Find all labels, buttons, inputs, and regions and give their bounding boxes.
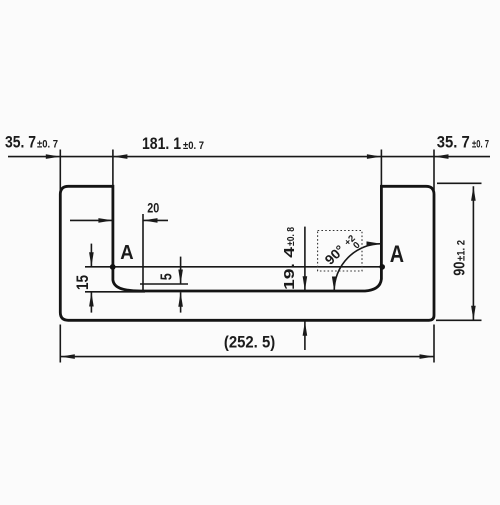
extension line right outer x=434 (433, 150, 435, 191)
svg-text:90: 90 (452, 262, 469, 276)
19.4 dim upper line with down arrow (304, 227, 306, 291)
svg-text:15: 15 (73, 275, 92, 290)
svg-text:±0. 7: ±0. 7 (472, 139, 489, 151)
point A right dot (379, 264, 385, 270)
arrow tip 434 pointing left (434, 154, 449, 159)
bottom dimension line 252.5 (60, 356, 434, 358)
arrow tip 381.4 pointing right (367, 154, 382, 159)
arrow tip 112.9 pointing left (113, 154, 128, 159)
svg-text:±1. 2: ±1. 2 (456, 240, 468, 261)
svg-text:A: A (120, 242, 133, 264)
90 dim top extension line (437, 182, 482, 184)
bottom dim extension line left (59, 325, 61, 363)
5 dim lower arrow (up) (180, 292, 182, 312)
A-level line through both A points (85, 266, 382, 268)
extension line right inner x=381.4 (380, 150, 382, 187)
arrow tip 434 pointing right (420, 354, 435, 359)
svg-text:±0. 7: ±0. 7 (183, 140, 204, 152)
part outline (60, 186, 434, 320)
arc arrow bottom pointing down (332, 277, 337, 292)
svg-text:35. 7: 35. 7 (5, 134, 36, 152)
arrow tip 60.3 pointing right (46, 154, 61, 159)
svg-text:19. 4: 19. 4 (281, 246, 298, 290)
bottom dim extension line right (433, 325, 435, 363)
svg-text:5: 5 (158, 273, 175, 280)
90 dim bottom extension line (436, 319, 482, 321)
90 dim vertical line (472, 186, 474, 320)
arrow tip up at 186.3 (471, 186, 476, 201)
arrow tip 112.9 pointing right (98, 218, 113, 223)
svg-text:±0. 7: ±0. 7 (37, 139, 58, 151)
svg-text:(252. 5): (252. 5) (224, 333, 275, 352)
15 dim upper arrow (down) (90, 244, 92, 267)
base-top extension line left (85, 291, 145, 293)
arrow tip 143 pointing left (143, 218, 158, 223)
arc arrow top pointing right (367, 241, 382, 246)
svg-text:±0. 8: ±0. 8 (285, 227, 297, 246)
20 dimension right segment (143, 219, 168, 221)
arrow tip 60.3 pointing left (60, 354, 75, 359)
extension line left outer x=60.3 (59, 150, 61, 191)
svg-text:35. 7: 35. 7 (437, 134, 470, 152)
5 dim upper arrow (down) (180, 257, 182, 284)
svg-text:181. 1: 181. 1 (142, 135, 181, 153)
svg-text:A: A (390, 241, 404, 268)
angle arc 90deg (334, 244, 381, 291)
dotted box around angle label (318, 231, 362, 272)
20 dimension left segment (70, 219, 113, 221)
extension line x=143 (142, 214, 144, 291)
extension line left inner x=112.9 (112, 150, 114, 187)
19.4 dim lower line with up arrow (304, 321, 306, 350)
point A left dot (110, 264, 116, 270)
arrow tip down at 320.3 (471, 306, 476, 321)
top dimension line (8, 156, 490, 158)
15 dim lower arrow (up) (90, 292, 92, 313)
tick line for 5 dim (140, 283, 188, 285)
svg-text:20: 20 (147, 200, 159, 216)
